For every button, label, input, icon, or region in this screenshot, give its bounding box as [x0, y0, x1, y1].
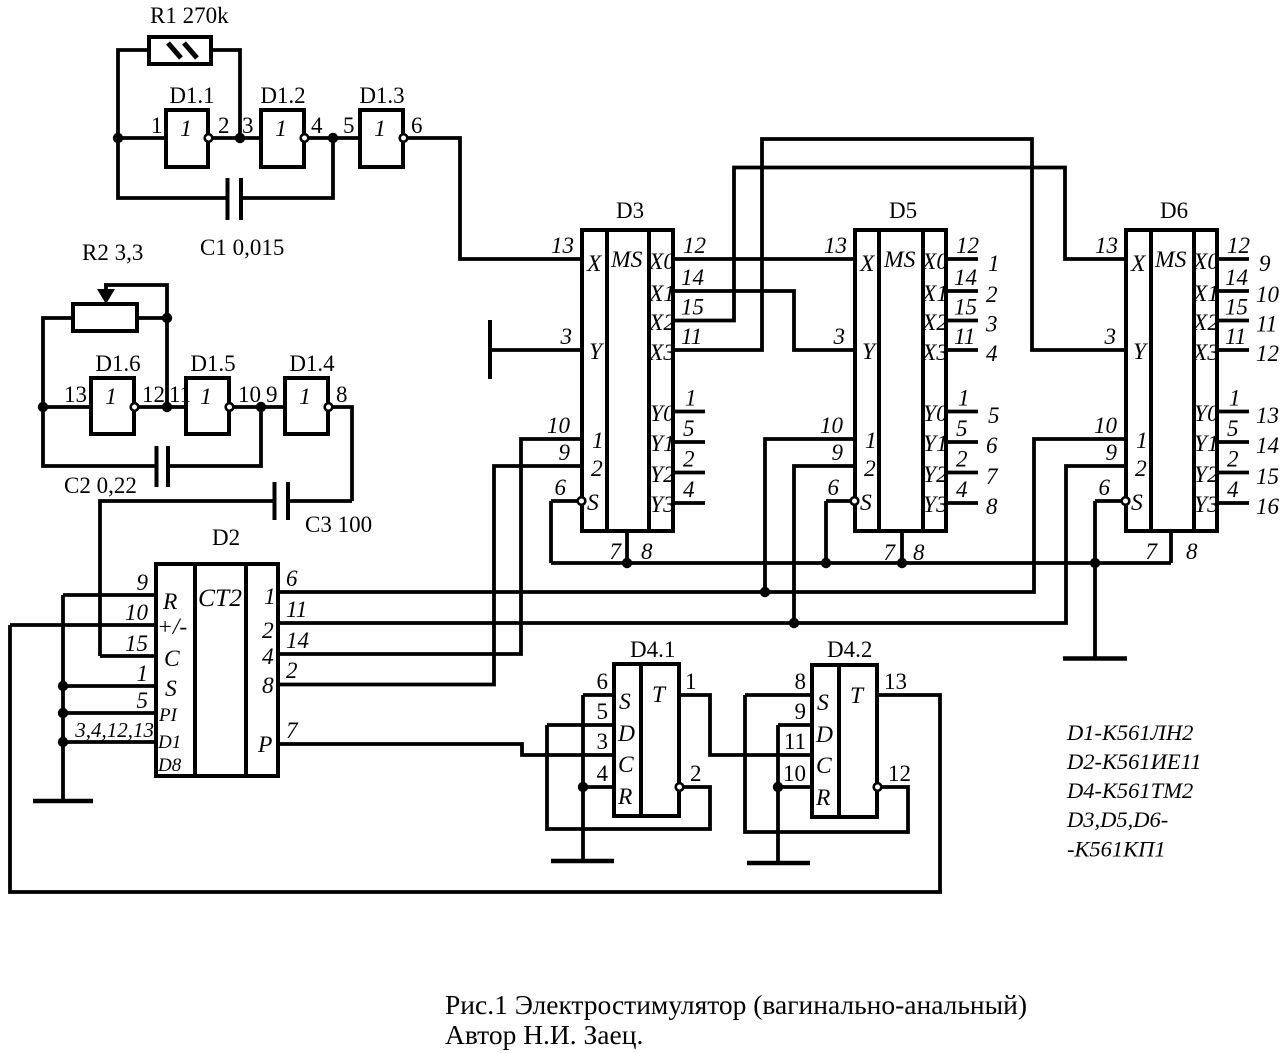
svg-text:2: 2	[262, 618, 274, 644]
svg-text:5: 5	[1227, 416, 1239, 441]
wire D2 output 4 pin14 to D3 pin10	[278, 439, 582, 654]
capacitor C3	[100, 482, 352, 656]
wire D2 pin1 S input	[63, 684, 156, 688]
svg-text:1: 1	[988, 251, 1000, 276]
svg-text:S: S	[817, 690, 829, 716]
node junction D6 S rail	[1090, 558, 1100, 568]
wire D5 Y1 stub	[946, 440, 978, 444]
wire D3 S down to ground rail	[549, 501, 553, 563]
svg-text:-К561КП1: -К561КП1	[1067, 837, 1166, 862]
wire D1.6 input	[41, 405, 91, 409]
svg-text:X3: X3	[1192, 340, 1219, 366]
svg-text:D1.4: D1.4	[289, 351, 335, 376]
wire D3 Y3 stub	[673, 501, 705, 505]
wire R1 right lead	[211, 50, 240, 138]
svg-text:1: 1	[685, 386, 697, 411]
wire D6 X3 stub	[1217, 348, 1249, 352]
svg-text:6: 6	[555, 475, 567, 500]
svg-text:7: 7	[286, 718, 299, 743]
svg-text:D4.1: D4.1	[630, 637, 675, 662]
svg-text:7: 7	[1146, 539, 1159, 564]
node junction at D1.6 input	[38, 402, 48, 412]
svg-text:12: 12	[142, 382, 165, 407]
wire D5 Y3 stub	[946, 501, 978, 505]
svg-text:11: 11	[1256, 312, 1277, 337]
svg-text:Автор Н.И. Заец.: Автор Н.И. Заец.	[445, 1019, 643, 1050]
capacitor C1	[118, 138, 333, 220]
svg-text:D4-К561ТМ2: D4-К561ТМ2	[1066, 778, 1193, 803]
multiplexer D6 K561KP1	[1126, 230, 1219, 531]
node junction S	[58, 681, 68, 691]
svg-text:3: 3	[1104, 324, 1117, 349]
svg-text:6: 6	[411, 113, 423, 138]
wire D6 Y1 stub	[1217, 440, 1249, 444]
svg-text:Y0: Y0	[923, 401, 948, 427]
wire D5 X2 stub	[946, 319, 978, 323]
flip-flop D4.1 K561TM2	[614, 664, 683, 816]
svg-text:PI: PI	[158, 705, 179, 726]
svg-text:13: 13	[551, 233, 574, 258]
wire D3 X2 output to D6 X input	[673, 168, 1126, 321]
svg-text:6: 6	[828, 475, 840, 500]
bubble D3 S	[578, 497, 586, 505]
svg-text:C: C	[816, 753, 832, 779]
svg-text:Рис.1 Электростимулятор (вагин: Рис.1 Электростимулятор (вагинально-анал…	[445, 989, 1027, 1020]
svg-text:D3: D3	[616, 198, 644, 223]
wire D6 S down to ground rail and ground	[1093, 501, 1097, 658]
svg-text:X1: X1	[921, 281, 948, 307]
svg-text:X1: X1	[1192, 281, 1219, 307]
svg-text:R: R	[815, 785, 830, 811]
wire D6 S input	[1095, 499, 1121, 503]
node junction D3 ground	[622, 558, 632, 568]
wire D2 pin10 updown input	[10, 623, 156, 627]
svg-text:12: 12	[888, 761, 911, 786]
wire D1.4 output down to C3	[333, 407, 352, 501]
svg-text:2: 2	[690, 761, 702, 786]
svg-text:14: 14	[286, 628, 309, 653]
wire D4.1 S input	[583, 693, 614, 697]
bubble D6 S	[1122, 497, 1130, 505]
svg-text:12: 12	[683, 233, 706, 258]
svg-text:S: S	[619, 689, 631, 715]
svg-text:X: X	[1130, 251, 1147, 277]
svg-text:1: 1	[137, 661, 149, 686]
svg-text:1: 1	[865, 428, 877, 454]
svg-text:13: 13	[1256, 403, 1279, 428]
svg-text:X3: X3	[648, 340, 675, 366]
wire select2 up to D5 pin9	[794, 466, 855, 623]
svg-text:9: 9	[559, 440, 571, 465]
svg-text:D: D	[815, 722, 833, 748]
wire D2 output 2 pin11 select line to D5 D6	[278, 466, 1126, 623]
ground below D4.2	[747, 861, 810, 866]
svg-text:D2-К561ИЕ11: D2-К561ИЕ11	[1066, 749, 1202, 774]
svg-text:D1.1: D1.1	[169, 83, 214, 108]
svg-text:4: 4	[683, 477, 695, 502]
svg-text:Y3: Y3	[650, 492, 675, 518]
svg-text:Y0: Y0	[650, 401, 675, 427]
svg-text:CT2: CT2	[198, 583, 242, 612]
node junction at D1.1 input	[113, 133, 123, 143]
svg-text:D: D	[617, 721, 635, 747]
svg-text:X0: X0	[921, 249, 948, 275]
multiplexer D5 K561KP1	[855, 230, 948, 531]
wire D5 X3 stub	[946, 348, 978, 352]
wire R1 left lead	[118, 50, 149, 138]
svg-text:Y1: Y1	[1194, 431, 1219, 457]
svg-text:X0: X0	[648, 249, 675, 275]
svg-text:2: 2	[218, 113, 230, 138]
svg-text:11: 11	[954, 324, 975, 349]
wire D1.1 out to D1.2 in	[213, 136, 261, 140]
wire D1.5 out to D1.4 in	[234, 405, 285, 409]
inverter D1.6	[91, 378, 138, 434]
svg-text:15: 15	[954, 295, 977, 320]
wire D2 output 1 pin6 select line to D5 D6	[278, 439, 1126, 592]
svg-text:3,4,12,13: 3,4,12,13	[74, 718, 154, 742]
node junction pin11	[162, 402, 172, 412]
svg-text:S: S	[1131, 490, 1143, 516]
svg-text:Y1: Y1	[650, 431, 675, 457]
svg-text:1: 1	[1136, 428, 1148, 454]
svg-text:D1.2: D1.2	[260, 83, 305, 108]
svg-text:1: 1	[200, 384, 212, 410]
wire D1.6 out to D1.5 in	[139, 405, 186, 409]
svg-text:D1.3: D1.3	[359, 83, 404, 108]
svg-text:4: 4	[311, 113, 323, 138]
svg-text:10: 10	[547, 413, 571, 438]
wire D3 X1 output to D5 Y input	[673, 291, 855, 350]
svg-text:4: 4	[1227, 477, 1239, 502]
svg-text:2: 2	[864, 456, 876, 482]
svg-text:7: 7	[986, 464, 999, 489]
wire D3 pins 7 8 to ground rail	[625, 531, 629, 563]
ground below D6	[1063, 656, 1127, 661]
svg-text:9: 9	[832, 440, 844, 465]
wire D4.1 D input	[547, 723, 614, 727]
svg-text:8: 8	[336, 382, 348, 407]
svg-text:8: 8	[1186, 539, 1198, 564]
svg-text:1: 1	[374, 116, 386, 142]
wire D3 X0 output to D5 X input	[673, 257, 855, 261]
svg-text:Y3: Y3	[1194, 492, 1219, 518]
svg-text:6: 6	[597, 669, 609, 694]
svg-text:X: X	[586, 251, 603, 277]
svg-text:MS: MS	[883, 247, 916, 273]
bubble D5 S	[851, 497, 859, 505]
wire D4.2 Q output pin13 to feedback rail	[877, 695, 940, 892]
wire D6 X0 stub	[1217, 257, 1249, 261]
wire D4.1 Q output to D4.2 C	[679, 695, 812, 755]
wire D5 S input	[826, 499, 850, 503]
wire D3 Y1 stub	[673, 440, 705, 444]
wire D1.1 input	[116, 136, 166, 140]
svg-text:13: 13	[824, 233, 847, 258]
svg-text:4: 4	[262, 644, 274, 670]
node junction PI	[58, 708, 68, 718]
svg-text:3: 3	[833, 324, 846, 349]
wire D2 output P pin7 to D4.1 C	[278, 744, 614, 755]
svg-text:4: 4	[986, 341, 998, 366]
svg-text:1: 1	[299, 384, 311, 410]
svg-text:5: 5	[343, 113, 355, 138]
svg-text:1: 1	[151, 113, 163, 138]
svg-text:4: 4	[956, 477, 968, 502]
svg-text:S: S	[587, 490, 599, 516]
svg-text:5: 5	[597, 699, 609, 724]
svg-text:15: 15	[125, 631, 148, 656]
svg-text:S: S	[860, 490, 872, 516]
svg-text:D2: D2	[212, 525, 240, 550]
inverter D1.2	[261, 110, 308, 167]
wire D6 Y0 stub	[1217, 410, 1249, 414]
svg-text:Y2: Y2	[923, 462, 948, 488]
svg-text:D4.2: D4.2	[827, 637, 872, 662]
svg-text:T: T	[652, 682, 667, 708]
svg-text:R2 3,3: R2 3,3	[82, 240, 143, 265]
svg-text:12: 12	[956, 233, 979, 258]
wire D2 pin5 PI input	[63, 711, 156, 715]
wire D4.1 S R ground strap	[581, 695, 585, 861]
node junction pin5	[328, 133, 338, 143]
svg-text:9: 9	[795, 699, 807, 724]
svg-text:2: 2	[1135, 456, 1147, 482]
svg-text:6: 6	[286, 566, 298, 591]
svg-text:11: 11	[681, 324, 702, 349]
wire D4.2 S input	[745, 693, 812, 697]
svg-text:3: 3	[560, 324, 573, 349]
svg-text:3: 3	[242, 113, 254, 138]
node junction select2 D5	[789, 618, 799, 628]
svg-text:12: 12	[1227, 233, 1250, 258]
svg-text:Y3: Y3	[923, 492, 948, 518]
svg-text:5: 5	[988, 403, 1000, 428]
svg-text:15: 15	[1225, 295, 1248, 320]
wire select1 up to D5 pin10	[765, 439, 855, 592]
svg-text:X2: X2	[921, 310, 948, 336]
node junction D4.1 R ground	[578, 782, 588, 792]
wire D6 X2 stub	[1217, 319, 1249, 323]
svg-text:7: 7	[610, 539, 623, 564]
node junction pin3	[235, 133, 245, 143]
wire D2 pin9 R input	[63, 593, 156, 597]
svg-text:C: C	[164, 646, 180, 672]
svg-text:D6: D6	[1160, 198, 1188, 223]
svg-text:4: 4	[597, 761, 609, 786]
wire D4.2 S loop from Qbar	[745, 695, 908, 832]
svg-text:2: 2	[591, 456, 603, 482]
svg-text:2: 2	[683, 447, 695, 472]
wire D6 X1 stub	[1217, 289, 1249, 293]
svg-text:5: 5	[137, 688, 149, 713]
svg-text:S: S	[165, 676, 177, 702]
node junction D1	[58, 737, 68, 747]
svg-text:C2 0,22: C2 0,22	[64, 473, 137, 498]
node junction D5 ground	[897, 558, 907, 568]
wire D1.3 output to D3 X input	[408, 138, 582, 259]
wire D4.2 R input	[778, 785, 812, 789]
multiplexer D3 K561KP1	[582, 230, 675, 531]
svg-text:5: 5	[683, 416, 695, 441]
wire D2 data inputs	[63, 740, 156, 744]
wire D2 pin15 C input	[100, 654, 156, 658]
resistor R1	[149, 37, 211, 64]
svg-text:R1 270k: R1 270k	[150, 3, 229, 28]
wire D4.1 Qbar feedback to D	[547, 725, 710, 829]
svg-text:10: 10	[1094, 413, 1118, 438]
wire ground rail under multiplexers	[551, 561, 1171, 565]
svg-text:+/-: +/-	[157, 614, 187, 640]
resistor R2 trimmer	[73, 285, 137, 331]
svg-text:11: 11	[1225, 324, 1246, 349]
wire D3 Y0 stub	[673, 410, 705, 414]
wire ground rail up to D6 pins 7 8	[1169, 531, 1173, 563]
svg-text:X2: X2	[1192, 310, 1219, 336]
svg-text:9: 9	[1259, 251, 1271, 276]
svg-text:8: 8	[262, 673, 274, 699]
wire D4.1 R input	[583, 785, 614, 789]
svg-text:1: 1	[275, 116, 287, 142]
svg-text:X3: X3	[921, 340, 948, 366]
svg-text:15: 15	[1256, 464, 1279, 489]
wire R2 node down to gate line	[165, 316, 169, 407]
svg-text:R: R	[162, 589, 177, 615]
wire D5 X1 stub	[946, 289, 978, 293]
svg-text:3: 3	[985, 312, 998, 337]
svg-text:2: 2	[986, 282, 998, 307]
svg-text:D5: D5	[889, 198, 917, 223]
svg-text:1: 1	[264, 584, 276, 610]
svg-text:8: 8	[641, 539, 653, 564]
wire D5 Y0 stub	[946, 410, 978, 414]
svg-text:T: T	[850, 683, 865, 709]
svg-text:Y2: Y2	[650, 462, 675, 488]
svg-text:3: 3	[597, 729, 609, 754]
capacitor C2	[43, 405, 261, 487]
svg-text:14: 14	[681, 265, 704, 290]
svg-text:1: 1	[958, 386, 970, 411]
svg-text:14: 14	[1256, 433, 1279, 458]
node junction pin9	[256, 402, 266, 412]
svg-text:11: 11	[784, 729, 806, 754]
wire R2 left lead	[43, 318, 73, 407]
inverter D1.1	[166, 110, 212, 167]
ground below D2	[33, 799, 93, 804]
wire D3 X3 output to D6 Y input	[673, 139, 1126, 350]
svg-text:10: 10	[783, 761, 806, 786]
svg-text:14: 14	[954, 265, 977, 290]
wire D2 output 8 pin2 to D3 pin9	[278, 466, 582, 685]
svg-text:9: 9	[137, 570, 149, 595]
wire D6 Y3 stub	[1217, 501, 1249, 505]
wire R2 right lead	[137, 316, 167, 320]
svg-text:1: 1	[592, 428, 604, 454]
svg-text:16: 16	[1256, 494, 1280, 519]
node junction D5 S rail	[821, 558, 831, 568]
svg-text:11: 11	[286, 597, 307, 622]
svg-text:Y0: Y0	[1194, 401, 1219, 427]
svg-text:10: 10	[125, 600, 149, 625]
svg-text:1: 1	[180, 116, 192, 142]
svg-text:5: 5	[956, 416, 968, 441]
wire D5 S down to ground rail	[824, 501, 828, 563]
svg-text:C1 0,015: C1 0,015	[200, 235, 284, 260]
wire R2 wiper to right node	[104, 285, 167, 316]
svg-text:D1.6: D1.6	[95, 351, 140, 376]
wire D4.2 D input	[778, 723, 812, 727]
svg-text:6: 6	[1099, 475, 1111, 500]
svg-text:D8: D8	[157, 755, 182, 776]
svg-text:1: 1	[685, 669, 697, 694]
svg-text:13: 13	[64, 382, 87, 407]
wire feedback rail D4.2 Q to D2 updown	[10, 625, 942, 892]
svg-text:MS: MS	[1154, 247, 1187, 273]
wire D3 S input	[551, 499, 577, 503]
svg-text:P: P	[257, 732, 272, 758]
svg-text:X0: X0	[1192, 249, 1219, 275]
svg-text:8: 8	[986, 494, 998, 519]
wire D4.2 D R ground strap	[776, 725, 780, 863]
inverter D1.3	[360, 110, 407, 167]
wire D5 Y2 stub	[946, 471, 978, 475]
inverter D1.4	[285, 378, 332, 434]
svg-text:C: C	[618, 752, 634, 778]
svg-text:1: 1	[105, 384, 117, 410]
svg-text:D1-К561ЛН2: D1-К561ЛН2	[1066, 720, 1193, 745]
svg-text:13: 13	[884, 669, 907, 694]
inverter D1.5	[186, 378, 233, 434]
wire ground bus left of D2	[61, 595, 65, 801]
svg-text:14: 14	[1225, 265, 1248, 290]
wire D1.2 out to D1.3 in	[309, 136, 360, 140]
ground below D4.1	[551, 859, 614, 864]
svg-text:D3,D5,D6-: D3,D5,D6-	[1066, 807, 1168, 832]
svg-text:C3 100: C3 100	[305, 512, 372, 537]
svg-text:10: 10	[1256, 282, 1280, 307]
node junction select1 D5	[760, 587, 770, 597]
svg-text:9: 9	[1106, 440, 1118, 465]
counter D2 K561IE11	[156, 564, 278, 776]
svg-text:13: 13	[1095, 233, 1118, 258]
node junction D4.2 R ground	[773, 782, 783, 792]
svg-text:X2: X2	[648, 310, 675, 336]
flip-flop D4.2 K561TM2	[812, 665, 881, 817]
svg-text:12: 12	[1256, 341, 1279, 366]
svg-text:1: 1	[1229, 386, 1241, 411]
wire D5 X0 stub	[946, 257, 978, 261]
wire D5 pins 7 8 to ground rail	[900, 531, 904, 563]
wire D3 Y2 stub	[673, 471, 705, 475]
svg-text:MS: MS	[610, 247, 643, 273]
svg-text:2: 2	[956, 447, 968, 472]
svg-text:9: 9	[266, 382, 278, 407]
electrode terminal at D3 Y	[488, 320, 492, 379]
svg-text:X1: X1	[648, 281, 675, 307]
wire electrode to D3 Y input	[492, 348, 582, 352]
svg-text:R: R	[617, 784, 632, 810]
svg-text:10: 10	[820, 413, 844, 438]
svg-text:Y2: Y2	[1194, 462, 1219, 488]
svg-text:X: X	[859, 251, 876, 277]
svg-text:6: 6	[986, 433, 998, 458]
svg-text:D1: D1	[157, 732, 181, 753]
wire D6 Y2 stub	[1217, 471, 1249, 475]
svg-text:15: 15	[681, 295, 704, 320]
svg-text:Y1: Y1	[923, 431, 948, 457]
svg-text:8: 8	[795, 669, 807, 694]
svg-text:2: 2	[286, 658, 298, 683]
